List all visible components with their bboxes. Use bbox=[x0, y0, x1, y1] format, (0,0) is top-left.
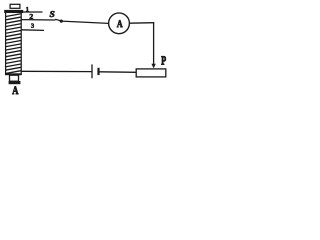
rheostat slider arrowhead P bbox=[151, 64, 155, 69]
wire switch to ammeter bbox=[61, 21, 108, 23]
coil bottom cap bbox=[10, 75, 19, 81]
label P bbox=[161, 56, 166, 64]
label 3 bbox=[31, 23, 34, 27]
coil bottom cap base bar bbox=[9, 81, 21, 84]
ammeter A1 letter bbox=[117, 20, 123, 27]
rheostat box bbox=[136, 69, 166, 77]
terminal wire 3 bbox=[22, 29, 45, 32]
coil top cap bbox=[10, 4, 20, 8]
label S bbox=[50, 11, 55, 17]
switch S blade bbox=[55, 19, 61, 21]
coil winding bbox=[5, 14, 21, 74]
wire coil to battery bbox=[22, 70, 92, 72]
terminal wire 2 bbox=[22, 19, 56, 21]
switch S pivot dot bbox=[60, 20, 63, 23]
coil bottom edge bbox=[5, 73, 22, 75]
label A (coil) bbox=[12, 86, 18, 94]
label 1 bbox=[26, 7, 29, 11]
terminal wire 1 bbox=[22, 11, 43, 13]
battery long plate bbox=[91, 64, 93, 78]
ammeter A1 circle bbox=[109, 13, 130, 34]
label 2 bbox=[30, 14, 33, 19]
wire battery to rheostat bbox=[100, 71, 137, 74]
wire right vertical down bbox=[153, 22, 155, 65]
coil body left edge bbox=[5, 13, 7, 75]
coil body right edge bbox=[20, 13, 22, 75]
wire ammeter to top right corner bbox=[129, 22, 154, 25]
battery short plate bbox=[97, 68, 99, 75]
coil top flange bbox=[4, 10, 23, 13]
